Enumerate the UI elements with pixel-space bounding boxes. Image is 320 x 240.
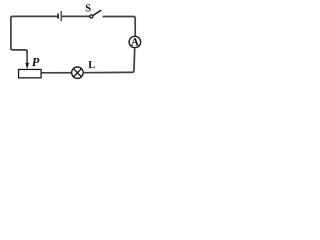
rheostat P body	[19, 69, 42, 77]
ammeter A circle	[129, 36, 141, 48]
wire lamp to rheostat	[41, 72, 71, 74]
label A	[131, 38, 139, 45]
label P	[32, 58, 40, 66]
wire switch to top-right corner, down to ammeter	[103, 17, 136, 36]
wire top-left, left side, jog and slider stem	[11, 16, 58, 52]
battery cell: short thick plate	[57, 13, 59, 18]
wire battery to switch hinge	[62, 15, 90, 17]
lamp L cross line 1	[73, 69, 81, 77]
switch S hinge	[90, 15, 93, 18]
rheostat slider stem	[26, 52, 28, 64]
lamp L cross line 2	[73, 69, 81, 77]
lamp L circle	[72, 67, 84, 79]
label L	[88, 61, 94, 68]
label S	[86, 4, 91, 11]
rheostat slider arrowhead	[25, 63, 29, 69]
battery cell: long thin plate	[60, 11, 62, 21]
wire ammeter to bottom-right corner, left to lamp	[84, 48, 135, 72]
switch S lever (open)	[93, 10, 102, 15]
